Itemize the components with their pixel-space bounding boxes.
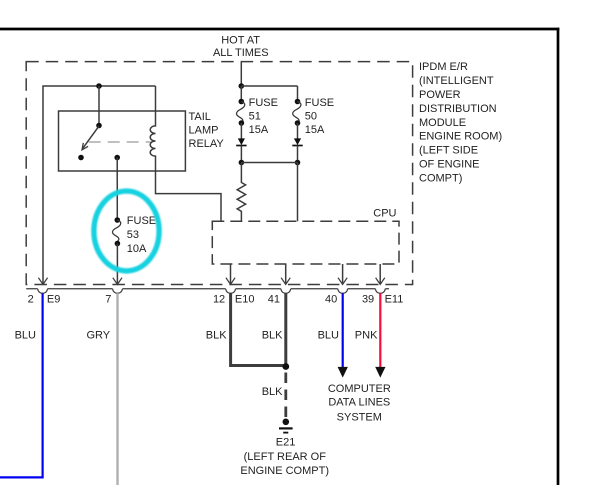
wire PNK from pin 39	[379, 293, 381, 367]
svg-text:FUSE: FUSE	[305, 97, 334, 109]
svg-text:CPU: CPU	[373, 207, 396, 219]
connector bump 7	[113, 289, 123, 294]
svg-text:BLK: BLK	[206, 330, 227, 342]
relay switch pivot	[96, 123, 102, 129]
svg-text:LAMP: LAMP	[189, 125, 219, 137]
svg-text:ALL TIMES: ALL TIMES	[213, 47, 269, 59]
connector bump E10-12	[226, 289, 236, 294]
svg-text:50: 50	[305, 110, 317, 122]
connector face line	[26, 288, 389, 290]
arrow pin 2	[38, 278, 47, 285]
svg-text:HOT AT: HOT AT	[221, 35, 260, 47]
svg-text:7: 7	[105, 293, 111, 305]
ground E21	[283, 419, 290, 426]
arrow pin 40	[338, 278, 347, 285]
fuse 51	[239, 99, 245, 105]
relay coil	[150, 86, 221, 221]
relay switch contact NC	[78, 155, 84, 161]
svg-text:41: 41	[268, 293, 280, 305]
svg-text:39: 39	[362, 293, 374, 305]
svg-text:10A: 10A	[127, 243, 147, 255]
relay box TAIL LAMP RELAY	[59, 111, 186, 171]
arrow BLU to data lines	[338, 367, 348, 378]
svg-text:ENGINE COMPT): ENGINE COMPT)	[240, 465, 329, 477]
svg-text:COMPT): COMPT)	[419, 172, 462, 184]
wire fuse 53 to pin 7	[116, 244, 118, 285]
svg-text:MODULE: MODULE	[419, 117, 466, 129]
wire BLK from pin 12	[231, 293, 283, 365]
highlight ellipse around fuse 53	[94, 191, 159, 271]
connector bump E9-2	[38, 289, 48, 294]
node junction BLK wires	[282, 363, 289, 370]
svg-text:53: 53	[127, 229, 139, 241]
wire CPU pin 40	[342, 264, 344, 284]
svg-text:E9: E9	[47, 293, 60, 305]
CPU dashed box	[212, 221, 399, 264]
arrow pin 7	[113, 278, 122, 285]
arrow pin 12	[226, 278, 235, 285]
svg-text:FUSE: FUSE	[249, 97, 278, 109]
svg-text:15A: 15A	[305, 124, 325, 136]
svg-text:COMPUTER: COMPUTER	[328, 383, 391, 395]
svg-text:E10: E10	[235, 293, 255, 305]
relay mechanical link dashed	[89, 141, 151, 143]
svg-text:DISTRIBUTION: DISTRIBUTION	[419, 103, 497, 115]
svg-text:RELAY: RELAY	[189, 138, 225, 150]
connector bump 41	[281, 289, 291, 294]
svg-text:FUSE: FUSE	[127, 215, 156, 227]
wire junction to switch pivot	[98, 86, 100, 126]
svg-text:40: 40	[325, 293, 337, 305]
wire BLK dashed to ground	[284, 373, 287, 418]
svg-text:E11: E11	[385, 293, 404, 305]
wire CPU pin 12	[230, 264, 232, 284]
svg-text:BLU: BLU	[15, 330, 36, 342]
page border top	[0, 28, 559, 31]
node junction bus left	[239, 160, 245, 166]
wire to fuse 50	[297, 86, 299, 102]
svg-text:E21: E21	[276, 437, 296, 449]
wire hot feed drop from border	[240, 62, 242, 86]
svg-text:POWER: POWER	[419, 89, 461, 101]
svg-text:IPDM E/R: IPDM E/R	[419, 61, 468, 73]
svg-text:(LEFT REAR OF: (LEFT REAR OF	[244, 451, 327, 463]
wire relay top feed	[43, 86, 156, 284]
wire CPU pin 41	[285, 264, 287, 284]
svg-text:ENGINE ROOM): ENGINE ROOM)	[419, 131, 502, 143]
svg-text:12: 12	[213, 293, 225, 305]
wire bus between diodes	[241, 162, 297, 164]
svg-text:SYSTEM: SYSTEM	[337, 411, 382, 423]
svg-text:PNK: PNK	[355, 330, 378, 342]
svg-text:TAIL: TAIL	[189, 111, 211, 123]
svg-text:OF ENGINE: OF ENGINE	[419, 159, 480, 171]
diode D2 under fuse 50	[297, 123, 299, 139]
svg-text:GRY: GRY	[87, 330, 111, 342]
connector bump 40	[338, 289, 348, 294]
svg-text:(LEFT SIDE: (LEFT SIDE	[419, 145, 478, 157]
svg-text:2: 2	[28, 293, 34, 305]
svg-text:51: 51	[249, 110, 261, 122]
wire fuse50 branch to CPU	[297, 163, 299, 222]
node junction bus right	[295, 160, 301, 166]
IPDM E/R dashed box	[26, 62, 412, 285]
relay switch arm	[83, 126, 99, 149]
fuse 53	[115, 217, 121, 223]
page border right	[557, 28, 560, 485]
relay switch arm arrowhead	[82, 143, 88, 150]
wire CPU pin 39	[379, 264, 381, 284]
fuse 50	[295, 99, 301, 105]
diode D1 under fuse 51	[240, 123, 242, 139]
svg-text:BLK: BLK	[262, 386, 283, 398]
connector bump E11-39	[375, 289, 385, 294]
resistor R1	[237, 163, 245, 222]
wire fuse feed horizontal	[241, 85, 297, 87]
node junction fuse feed	[239, 83, 245, 89]
svg-text:DATA LINES: DATA LINES	[328, 397, 390, 409]
arrow pin 41	[281, 278, 290, 285]
wire to fuse 51	[240, 86, 242, 102]
wire GRY from pin 7	[116, 293, 118, 485]
svg-text:15A: 15A	[249, 124, 269, 136]
svg-text:BLK: BLK	[262, 330, 283, 342]
svg-text:(INTELLIGENT: (INTELLIGENT	[419, 75, 494, 87]
arrow PNK to data lines	[375, 367, 385, 378]
wire BLU from pin 2	[0, 293, 43, 477]
wire switch output to fuse 53	[116, 158, 118, 221]
arrow pin 39	[376, 278, 385, 285]
relay switch output contact	[114, 155, 120, 161]
node junction relay switch feed	[96, 83, 102, 89]
wire BLU from pin 40	[342, 293, 344, 367]
wire BLK from pin 41	[284, 293, 287, 366]
svg-text:BLU: BLU	[318, 330, 339, 342]
